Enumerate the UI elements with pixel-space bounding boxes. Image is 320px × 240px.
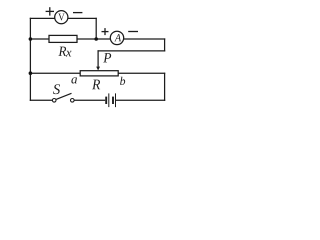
- label a: [71, 77, 77, 83]
- wire battery to switch: [74, 99, 104, 101]
- wire top voltmeter branch: [30, 17, 96, 19]
- wire slider stem: [97, 51, 99, 67]
- rheostat R body: [80, 71, 118, 76]
- plus sign ammeter: [102, 28, 109, 35]
- label P: [103, 53, 111, 62]
- wire bottom right battery to rail: [116, 99, 164, 101]
- label b: [120, 77, 125, 85]
- node junction voltmeter-ammeter: [94, 37, 98, 41]
- wire row2 Rx-ammeter row: [30, 38, 164, 40]
- ammeter A: [110, 31, 123, 44]
- label Rx: [58, 47, 71, 57]
- switch S: [52, 99, 56, 103]
- wire left rail: [29, 18, 31, 100]
- battery cells: [106, 93, 115, 107]
- minus sign ammeter: [128, 31, 138, 33]
- minus sign voltmeter: [73, 12, 82, 14]
- plus sign voltmeter: [46, 7, 54, 15]
- wire ammeter loop bottom to slider: [98, 50, 165, 52]
- wire voltmeter branch right vertical: [95, 18, 97, 39]
- slider arrowhead P: [96, 67, 100, 71]
- wire switch to left rail: [30, 99, 52, 101]
- voltmeter V: [55, 11, 68, 24]
- wire ammeter loop right vertical: [164, 39, 166, 51]
- resistor Rx: [49, 35, 77, 42]
- node junction rail-Rx: [29, 37, 33, 41]
- label R: [92, 80, 100, 90]
- label S: [53, 84, 60, 94]
- node junction rail-rheostat: [29, 71, 33, 75]
- wire rheostat terminal b: [118, 72, 164, 74]
- wire battery right vertical: [164, 73, 166, 100]
- wire rheostat terminal a: [30, 72, 80, 74]
